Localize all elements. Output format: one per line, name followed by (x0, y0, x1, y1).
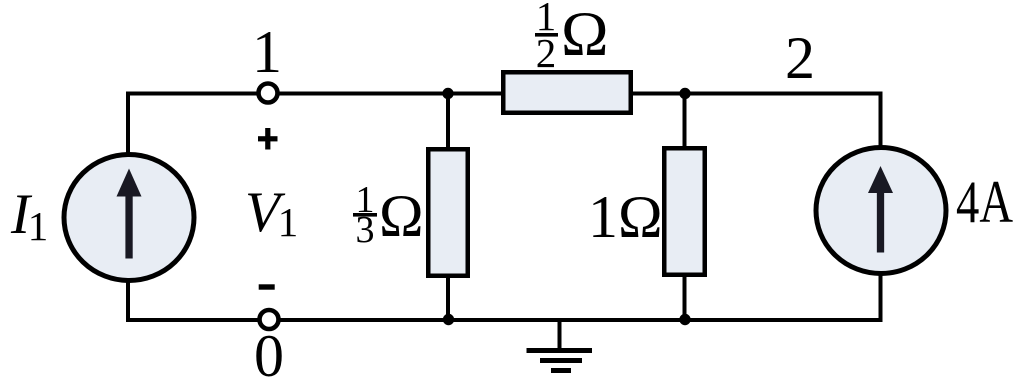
svg-text:1: 1 (252, 19, 282, 85)
svg-text:Ω: Ω (561, 0, 609, 69)
svg-text:2: 2 (536, 30, 557, 76)
svg-text:4A: 4A (956, 169, 1013, 235)
svg-text:0: 0 (254, 323, 284, 377)
svg-text:Ω: Ω (379, 183, 424, 249)
svg-text:1: 1 (278, 199, 299, 245)
svg-text:1: 1 (28, 203, 49, 249)
svg-text:2: 2 (785, 25, 815, 91)
svg-text:1Ω: 1Ω (588, 184, 663, 250)
